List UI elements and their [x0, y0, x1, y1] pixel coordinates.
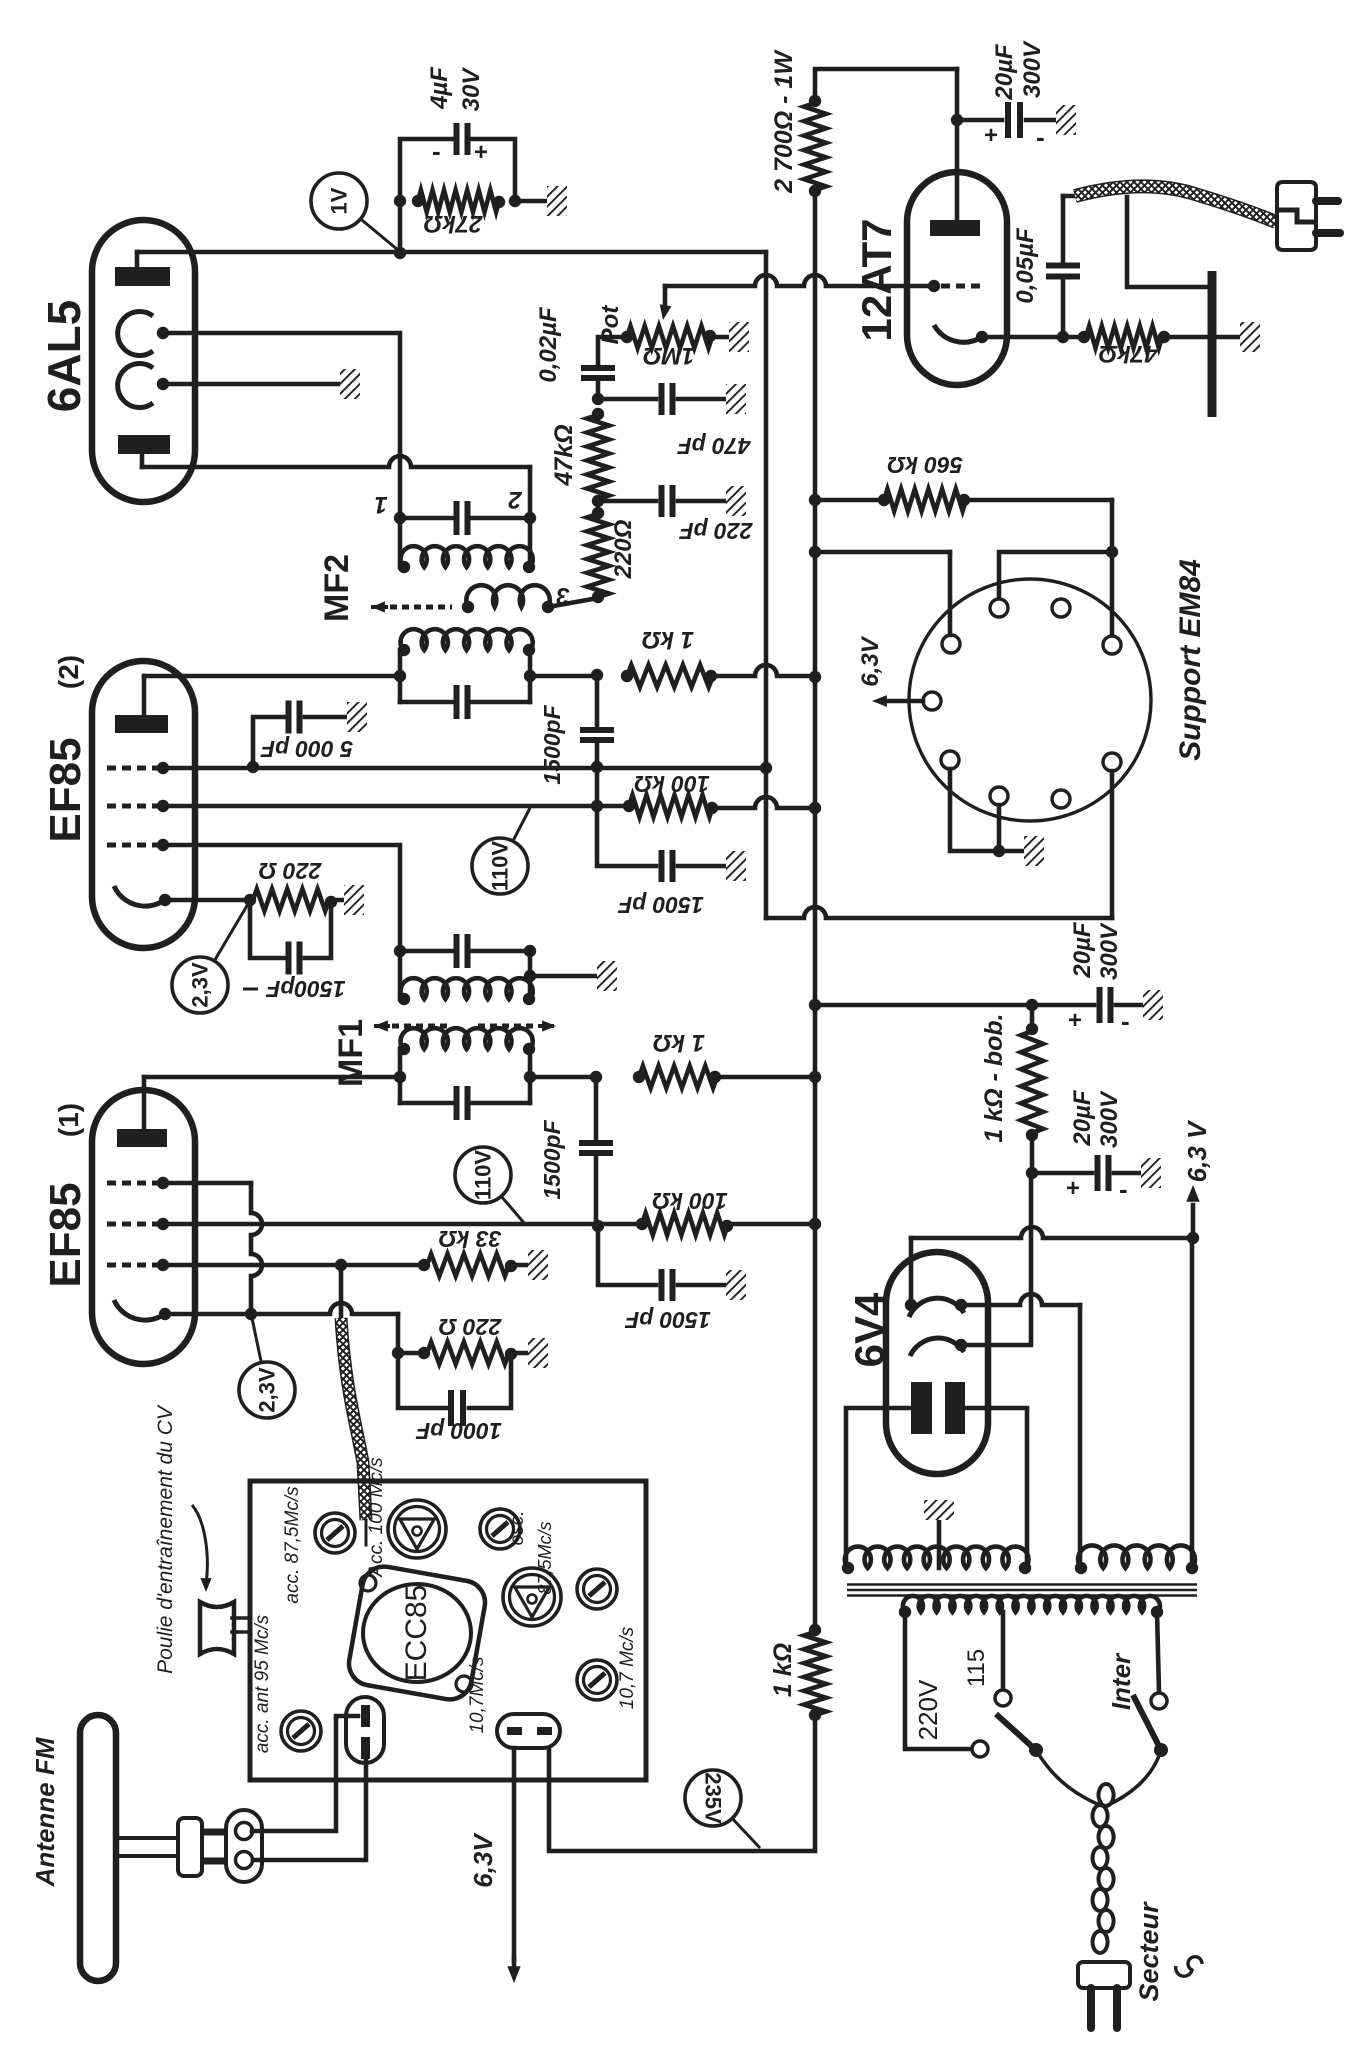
capacitor 1500pF (screen bypass stage2) [597, 806, 726, 918]
wire 1kΩ to HT bus [713, 665, 815, 676]
IF transformer MF2 primary [394, 629, 536, 719]
wire 6AL5 cathode2 to ground [163, 382, 340, 387]
chassis bar (output shield) [1208, 271, 1217, 417]
svg-text:300V: 300V [1019, 40, 1046, 98]
wire braid shield to chassis bar [1127, 197, 1206, 287]
capacitor 0,05µF (output coupling) [1012, 196, 1080, 337]
wire HT bus to socket pin3 [815, 550, 950, 555]
svg-text:acc. 87,5Mc/s: acc. 87,5Mc/s [282, 1486, 303, 1604]
switch Inter [996, 1652, 1168, 1806]
wire pot wiper to 12AT7 grid [665, 275, 930, 286]
wire EF85(2) anode to MF2 primary [144, 674, 400, 679]
capacitor 20µF 300V (B+ filter lower) [1026, 1089, 1141, 1204]
socket Support EM84 [909, 559, 1207, 821]
capacitor 1500pF (screen bypass stage1) [598, 1226, 726, 1333]
svg-text:1500pF: 1500pF [539, 704, 565, 784]
wire 560k to socket pin4 [1110, 500, 1115, 636]
svg-text:2 700Ω - 1W: 2 700Ω - 1W [770, 49, 798, 194]
svg-text:220V: 220V [913, 1679, 943, 1740]
HT winding center tap to ground [937, 1520, 942, 1568]
wire antenna socket to tuner input 1 [252, 1716, 358, 1831]
capacitor 220pF to ground [592, 485, 754, 544]
wire pin3 to B+ line [948, 552, 953, 635]
label Poulie d'entrainement du CV [154, 1404, 212, 1674]
wire 6AL5 plate1 to AGC bus (node 1V) [137, 250, 766, 255]
mains plug Secteur [1078, 1901, 1202, 2028]
tube V0 ECC85 (inside tuner) [346, 1563, 489, 1703]
wire 6AL5 plate2 to MF2 top [142, 456, 530, 467]
svg-text:1 kΩ: 1 kΩ [769, 1643, 797, 1697]
svg-text:-: - [432, 136, 441, 166]
6V4 cathode 2 [910, 1338, 967, 1356]
wire HT bus to 20µF + 1kΩ bob node [815, 1003, 1032, 1008]
svg-text:100 kΩ: 100 kΩ [634, 771, 710, 797]
svg-text:20µF: 20µF [991, 43, 1018, 101]
svg-text:Support EM84: Support EM84 [1174, 559, 1207, 761]
ground (HT center tap) [924, 1500, 954, 1520]
svg-text:1500 pF: 1500 pF [617, 892, 704, 918]
svg-text:+: + [984, 122, 998, 149]
svg-text:1 kΩ: 1 kΩ [642, 626, 694, 653]
potentiometer Pot 1MΩ (volume) [597, 286, 729, 369]
shielded output cable (braid) to pickup plug [1063, 186, 1276, 222]
svg-text:115: 115 [963, 1649, 990, 1687]
wire tuner HT pin to 1kΩ (235V line) [549, 1717, 815, 1851]
ground (5000pF) [347, 702, 367, 732]
svg-text:1500pF: 1500pF [539, 1119, 565, 1199]
svg-text:2,3V: 2,3V [255, 1367, 280, 1413]
resistor 1kΩ bob (smoothing) [980, 1005, 1043, 1173]
tuning pulley [200, 1602, 250, 1654]
svg-text:1 kΩ: 1 kΩ [653, 1029, 705, 1056]
svg-text:0,02µF: 0,02µF [535, 306, 562, 383]
wire cathode1b to 6,3V winding [961, 1294, 1080, 1565]
svg-text:110V: 110V [488, 841, 513, 891]
svg-text:2: 2 [508, 486, 523, 513]
capacitor 4µF 30V with 27kΩ block [400, 66, 515, 253]
resistor 2700Ω-1W [770, 49, 963, 198]
ground (6AL5 cathode2) [340, 369, 360, 399]
svg-text:Acc. 100 Mc/s: Acc. 100 Mc/s [366, 1457, 387, 1578]
svg-text:470 pF: 470 pF [677, 433, 752, 459]
wire 6V4 cathode to heater/6,3V rail [911, 1227, 1199, 1305]
wire cathode2 to B+ (20µF node) [961, 1175, 1031, 1345]
12AT7 cathode [934, 325, 988, 343]
EF85(1) grid g1 [107, 1259, 169, 1271]
wire MF1 secondary to ground [530, 974, 597, 979]
antenna plug (male) [178, 1818, 224, 1876]
trimmer 10,7Mc/s lower [467, 1656, 617, 1734]
capacitor 20µF 300V (B+ filter upper) [1032, 921, 1143, 1036]
balloon 235V [732, 1818, 760, 1848]
svg-text:1500 pF: 1500 pF [624, 1307, 711, 1333]
trimmer osc [480, 1509, 520, 1549]
IF transformer MF1 primary [394, 1028, 536, 1120]
EF85(2) anode [115, 676, 168, 733]
terminal switch right [1151, 1693, 1167, 1709]
svg-text:(2): (2) [53, 655, 84, 689]
svg-text:300V: 300V [1096, 1090, 1123, 1148]
wire socket pin1 to pin4 node [999, 552, 1112, 599]
ground (1500pF stage1) [726, 1270, 746, 1300]
EF85(2) grid g2 [107, 800, 169, 812]
wire EF85(1) anode to MF1 primary [144, 1075, 400, 1080]
svg-text:EF85: EF85 [41, 1182, 90, 1287]
svg-text:Pot: Pot [597, 305, 624, 345]
svg-text:220 Ω: 220 Ω [259, 858, 323, 884]
svg-text:6,3V: 6,3V [468, 1832, 498, 1888]
wire g3 line to AGC bus [163, 766, 766, 771]
capacitor 5000pF (g3 bypass) [247, 701, 353, 774]
resistor 220Ω (cathode stage2) [165, 858, 344, 911]
svg-text:ECC85: ECC85 [400, 1585, 433, 1682]
resistor 47kΩ (output) [1078, 326, 1170, 367]
wire g1 line (stage1) [163, 1263, 341, 1268]
ground (output) [1240, 322, 1260, 352]
svg-text:+: + [1066, 1175, 1080, 1202]
svg-text:6V4: 6V4 [846, 1292, 893, 1367]
trimmer 10,7Mc/s right [577, 1569, 638, 1709]
EF85(2) grid g1 [107, 839, 169, 851]
balloon 2,3V (stage1) [252, 1318, 261, 1363]
svg-text:220Ω: 220Ω [610, 519, 637, 579]
capacitor 0,02µF [535, 306, 624, 399]
wire pins 6,8 to ground [950, 769, 1024, 857]
padder Acc.100Mc/s [366, 1457, 446, 1578]
ground (1MΩ pot) [729, 322, 749, 352]
ground (27kΩ) [547, 186, 567, 216]
resistor 220Ω (detector chain) [587, 507, 637, 603]
capacitor 20µF 300V (B+ filter at 12AT7) [957, 40, 1056, 152]
resistor 100kΩ (screen stage1) [636, 1188, 733, 1235]
12AT7 grid [928, 280, 980, 292]
wire MF2 primary to 1kΩ [530, 674, 597, 679]
svg-text:220 pF: 220 pF [679, 518, 754, 544]
wire 100k stage1 to HT bus [728, 1222, 815, 1227]
tube V2 EF85(2) envelope [41, 655, 195, 948]
trimmer acc 87,5Mc/s [282, 1486, 355, 1604]
MF2 tuning core [371, 601, 452, 612]
IF transformer MF1 secondary [332, 934, 536, 1087]
IF transformer MF2 secondary (pins 1,2) [318, 486, 536, 622]
svg-text:6,3 V: 6,3 V [1182, 1119, 1212, 1182]
wire 100k to HT bus [713, 797, 815, 808]
svg-text:(1): (1) [53, 1103, 84, 1137]
mains twisted cord [1093, 1784, 1114, 1953]
EF85(1) grid g3 [107, 1177, 169, 1189]
EF85(2) cathode [114, 886, 171, 906]
svg-text:MF2: MF2 [318, 554, 356, 622]
resistor 220Ω (cathode stage1) [398, 1314, 528, 1364]
svg-text:-: - [1036, 122, 1045, 152]
6V4 cathode 1 [905, 1298, 967, 1317]
wire pin3 to 220Ω chain [548, 598, 598, 607]
resistor 47kΩ (detector chain) [550, 408, 609, 499]
6V4 anode plates [911, 1382, 965, 1434]
capacitor 470pF to ground [592, 383, 752, 459]
resistor 560kΩ [809, 452, 1112, 511]
tuner heater/HT pins (bottom) [497, 1714, 560, 1748]
svg-text:110V: 110V [471, 1150, 496, 1200]
tube V6 6V4 envelope [846, 1252, 988, 1474]
6AL5 diode plate 2 [118, 435, 170, 467]
svg-text:1V: 1V [327, 187, 352, 214]
MF2 tertiary coupling coil (pin 3) [462, 582, 570, 613]
transformer core [847, 1585, 1197, 1596]
padder osc 87,5Mc/s [503, 1511, 561, 1626]
resistor 27kΩ [394, 190, 521, 237]
svg-text:10,7 Mc/s: 10,7 Mc/s [617, 1626, 638, 1709]
svg-text:1MΩ: 1MΩ [643, 342, 695, 369]
svg-text:30V: 30V [458, 67, 485, 112]
wire 47kΩ to chassis bar and ground [1164, 335, 1240, 340]
wire antenna socket to tuner input 2 [253, 1760, 366, 1860]
svg-text:20µF: 20µF [1069, 1089, 1096, 1147]
svg-text:-: - [1121, 1006, 1130, 1036]
capacitor 1000pF (cathode stage1) [398, 1353, 511, 1444]
svg-text:4µF: 4µF [426, 66, 453, 110]
ground (1500pF stage2) [726, 851, 746, 881]
wire g2 line (110V screen) [163, 804, 627, 809]
wire pin5 heater 6,3V arrow [857, 635, 923, 707]
shielded cable (braid) from tuner to EF85(1) grid [341, 1265, 366, 1545]
ground (20µF at 12AT7) [1056, 105, 1076, 135]
wire 12AT7 cathode to 47kΩ [982, 335, 1084, 340]
svg-text:-: - [1119, 1174, 1128, 1204]
svg-text:100 kΩ: 100 kΩ [652, 1188, 728, 1214]
wire 27k to ground [515, 199, 547, 204]
svg-text:560 kΩ: 560 kΩ [887, 452, 963, 478]
svg-text:+: + [1068, 1007, 1082, 1034]
capacitor 1500pF (inline, stage1) [539, 1077, 613, 1224]
capacitor 1500pF (inline, stage2) [539, 675, 614, 806]
svg-text:5 000 pF: 5 000 pF [260, 736, 353, 762]
resistor 1kΩ (MF2 feed) [621, 626, 717, 687]
wire 1kΩ stage1 to HT bus [717, 1075, 815, 1080]
terminal 115 [963, 1649, 1011, 1706]
ground (MF1 secondary) [597, 961, 617, 991]
EF85(2) grid g3 [107, 762, 169, 774]
wire 6,3V heater arrow (top) [1182, 1119, 1212, 1238]
12AT7 anode [930, 69, 980, 236]
transformer primary winding [899, 1596, 1163, 1618]
trimmer acc ant 95Mc/s [252, 1614, 321, 1753]
svg-text:300V: 300V [1096, 922, 1123, 980]
resistor 100kΩ (screen stage2) [623, 771, 718, 817]
wire primary left to 220V terminal [905, 1612, 972, 1749]
svg-text:Poulie d'entraînement du CV: Poulie d'entraînement du CV [154, 1404, 177, 1674]
resistor 1kΩ (tuner HT feed) [769, 1624, 826, 1721]
ground (20µF upper) [1143, 990, 1163, 1020]
svg-text:osc.: osc. [507, 1511, 528, 1546]
wire EM84 grid pin7 to AGC bus [766, 771, 1112, 918]
EF85(1) anode [117, 1077, 167, 1147]
node 1V junction [394, 247, 406, 259]
wire tuner heater pin to 6,3V arrow [468, 1748, 521, 1983]
svg-text:Secteur: Secteur [1134, 1901, 1164, 2002]
wire cathode line (stage1) [165, 1303, 404, 1359]
svg-text:235V: 235V [701, 1772, 726, 1824]
balloon 2,3V (stage2) [214, 904, 248, 961]
svg-text:47kΩ: 47kΩ [550, 424, 578, 486]
balloon 110V (stage2) [513, 808, 530, 841]
tube V4 6AL5 envelope [38, 220, 195, 502]
wire g2 line 110V (stage1) [163, 1222, 640, 1227]
svg-text:+: + [474, 139, 488, 166]
wire 6V4 anodes to HT winding [846, 1408, 1027, 1565]
EF85(1) grid g2 [107, 1218, 169, 1230]
svg-text:12AT7: 12AT7 [853, 219, 900, 342]
wire MF1 primary to 1kΩ (stage1) [530, 1075, 596, 1080]
resistor 33kΩ (grid stage1) [341, 1226, 528, 1276]
svg-text:acc. ant 95 Mc/s: acc. ant 95 Mc/s [252, 1614, 273, 1753]
wire 6AL5 cathode1 to MF2 pin1 [163, 333, 400, 518]
svg-text:2,3V: 2,3V [188, 962, 213, 1008]
HT bus (vertical 2700Ω feed) [813, 191, 818, 1630]
tuner block ECC85 (box) [250, 1481, 646, 1780]
antenna feeder twin lead [116, 1838, 180, 1856]
svg-text:33 kΩ: 33 kΩ [439, 1226, 502, 1252]
MF1 tuning cores (double arrow) [374, 1020, 556, 1031]
svg-text:1: 1 [374, 491, 387, 518]
svg-text:10,7Mc/s: 10,7Mc/s [467, 1656, 488, 1734]
wire primary right to switch [1157, 1612, 1159, 1692]
svg-text:6,3V: 6,3V [857, 635, 884, 686]
svg-text:6AL5: 6AL5 [38, 300, 90, 412]
EF85(1) cathode [114, 1300, 171, 1320]
output plug (PU) [1277, 182, 1340, 250]
transformer HT secondary winding [842, 1547, 1031, 1575]
svg-text:1000 pF: 1000 pF [415, 1418, 502, 1444]
svg-text:0,05µF: 0,05µF [1012, 227, 1039, 304]
svg-text:EF85: EF85 [41, 737, 90, 842]
terminal 220V [913, 1679, 988, 1757]
tuner grid output pin (to braid) [346, 1697, 384, 1763]
svg-text:27kΩ: 27kΩ [423, 210, 483, 237]
antenna Antenne FM (dipole) [30, 1715, 116, 1981]
svg-text:Antenne FM: Antenne FM [30, 1736, 60, 1887]
wire g3 to cathode (stage1) [163, 1181, 251, 1186]
capacitor 1500pF (cathode stage2) [243, 900, 346, 1002]
AGC bus (vertical) [764, 252, 769, 918]
resistor 1kΩ (MF1 feed) [633, 1029, 721, 1088]
svg-text:220 Ω: 220 Ω [439, 1314, 503, 1340]
svg-text:Inter: Inter [1106, 1652, 1136, 1710]
6AL5 cathode 2 [118, 364, 170, 408]
svg-text:20µF: 20µF [1069, 921, 1096, 979]
wire g1 EF85(2) to MF1 [163, 845, 400, 951]
ground (220Ω stage1) [528, 1338, 548, 1368]
tube V5 12AT7 envelope [853, 172, 1007, 385]
wire primary tap to 115 terminal [1001, 1612, 1006, 1689]
transformer 6,3V winding [1075, 1238, 1198, 1574]
6AL5 diode plate 1 [115, 252, 170, 286]
ground (20µF lower) [1141, 1158, 1161, 1188]
ground (33kΩ) [528, 1250, 548, 1280]
balloon 110V (stage1) [501, 1196, 525, 1224]
ground (220pF) [726, 486, 746, 516]
svg-text:47kΩ: 47kΩ [1098, 340, 1158, 367]
antenna socket (female) [226, 1810, 262, 1882]
svg-text:1500pF: 1500pF [265, 976, 345, 1002]
ground (220Ω stage2) [344, 885, 364, 915]
svg-text:1 kΩ - bob.: 1 kΩ - bob. [980, 1013, 1008, 1142]
6AL5 cathode 1 [118, 312, 170, 356]
balloon 1V [361, 219, 399, 250]
svg-text:87,5Mc/s: 87,5Mc/s [535, 1521, 555, 1594]
tube V1 EF85(1) envelope [41, 1090, 195, 1364]
ground (470pF) [726, 384, 746, 414]
ground (EM84) [1024, 836, 1044, 866]
